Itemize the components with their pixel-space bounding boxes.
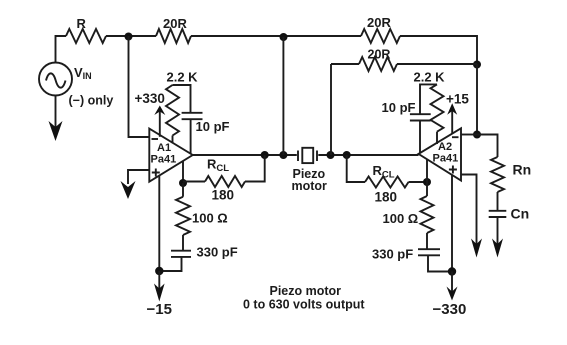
svg-text:100 Ω: 100 Ω — [192, 211, 228, 226]
svg-text:(−) only: (−) only — [69, 94, 114, 108]
svg-text:Rn: Rn — [513, 162, 532, 178]
wire cap to -330 junction — [428, 255, 452, 271]
capacitor 10pF comp A2 — [410, 114, 431, 120]
svg-text:0 to 630 volts output: 0 to 630 volts output — [243, 298, 365, 312]
wire feedback vertical A2 — [330, 64, 332, 155]
wire A1 output — [193, 154, 297, 156]
wire A1 body to RCL junction — [182, 161, 184, 183]
wire cap bottom to A2 tip — [419, 121, 421, 153]
svg-text:180: 180 — [212, 188, 235, 203]
node A2 inverting — [473, 131, 481, 139]
resistor R — [66, 29, 106, 43]
ground arrow A1 noninverting — [121, 181, 136, 199]
svg-text:100 Ω: 100 Ω — [383, 211, 419, 226]
op-amp A1 — [149, 129, 192, 182]
node A1 feedback top — [280, 33, 288, 41]
wire top right corner down — [400, 36, 477, 64]
supply arrow +15 — [451, 110, 453, 134]
wire A2 Vminus pin right and down — [461, 175, 477, 248]
wire Cn down — [497, 217, 499, 247]
svg-text:A1: A1 — [157, 142, 171, 154]
svg-text:2.2 K: 2.2 K — [414, 70, 446, 85]
supply arrow -15 — [158, 271, 160, 291]
resistor Rn — [491, 157, 504, 192]
wire A2 fb left corner — [331, 63, 359, 65]
wire RCL2 from piezo node down — [347, 155, 365, 182]
wire RCL2 to junction — [409, 181, 428, 183]
svg-text:Piezo motor: Piezo motor — [270, 284, 342, 298]
resistor 20R to A2 inverting — [361, 29, 400, 43]
minus sign A2 — [452, 136, 459, 138]
wire input node down to A1 inverting input — [129, 36, 150, 137]
resistor 100 ohm A1 — [176, 183, 190, 250]
wire to RCL1 — [183, 181, 205, 183]
plus sign A2 — [449, 166, 457, 174]
svg-text:20R: 20R — [367, 15, 391, 30]
plus sign A1 — [152, 169, 160, 177]
capacitor Cn — [489, 211, 507, 217]
wire 2.2K top over to cap — [173, 85, 191, 112]
svg-text:−15: −15 — [147, 301, 172, 318]
wire VIN bottom — [55, 96, 57, 129]
piezo motor body — [302, 148, 313, 163]
wire piezo to A2 output — [318, 154, 418, 156]
resistor 20R feedback A2 — [359, 57, 397, 71]
svg-text:20R: 20R — [368, 48, 391, 62]
supply arrow +330 — [159, 111, 161, 137]
resistor 2.2K comp A1 — [166, 85, 179, 136]
node RCL2 junction — [423, 178, 431, 186]
wire 2.2K bottom to A2 body — [436, 132, 438, 144]
svg-text:A2: A2 — [438, 141, 452, 153]
ground arrow Cn — [492, 239, 503, 258]
svg-text:+15: +15 — [446, 92, 469, 107]
wire 2.2K bottom to A1 body — [172, 136, 174, 144]
wire 20R2 to right rail — [397, 63, 477, 65]
svg-text:330 pF: 330 pF — [197, 245, 238, 260]
svg-text:motor: motor — [292, 179, 328, 193]
wire 20R1 to node A1out-top — [191, 35, 361, 37]
node 20R junction right — [473, 61, 481, 69]
wire A1 Vminus pin down — [158, 176, 160, 271]
svg-text:Pa41: Pa41 — [433, 153, 459, 165]
svg-text:Pa41: Pa41 — [151, 154, 177, 166]
piezo motor right plate — [316, 151, 318, 162]
capacitor 330pF A2 — [418, 249, 440, 255]
wire cap bottom to A1 tip — [190, 119, 192, 153]
node RCL1 output tie — [261, 151, 269, 159]
source VIN — [39, 63, 72, 96]
resistor RCL 180 A2 — [365, 177, 409, 188]
wire RCL1 up to output — [245, 155, 265, 182]
capacitor 10pF comp A1 — [182, 113, 203, 119]
wire VIN top — [56, 36, 67, 63]
svg-text:10 pF: 10 pF — [382, 100, 416, 115]
resistor RCL 180 A1 — [205, 176, 245, 187]
wire cap to -15 junction — [159, 257, 181, 271]
wire A1 noninverting input — [128, 170, 149, 184]
resistor 2.2K comp A2 — [431, 84, 444, 131]
svg-text:330 pF: 330 pF — [372, 247, 413, 262]
svg-text:Cn: Cn — [511, 206, 530, 222]
resistor 20R feedback A1 — [156, 29, 191, 43]
ground arrow VIN — [49, 121, 63, 141]
node input junction — [125, 33, 133, 41]
resistor 100 ohm A2 — [421, 182, 434, 249]
minus sign A1 — [152, 138, 159, 140]
svg-text:−330: −330 — [433, 301, 467, 318]
node RCL1 junction — [179, 179, 187, 187]
wire 2.2K top over to cap — [420, 84, 437, 113]
ground arrow A2 Vminus — [471, 239, 482, 258]
node RCL2 output tie — [343, 151, 351, 159]
wire A2 body to RCL junction — [426, 160, 428, 183]
op-amp A2 — [419, 128, 462, 180]
svg-text:20R: 20R — [163, 16, 187, 31]
wire feedback vertical A1 — [282, 37, 284, 155]
capacitor 330pF A1 — [171, 251, 191, 257]
supply arrow -330 — [451, 272, 453, 293]
wire Rn branch — [477, 135, 498, 158]
wire A2 inverting input to rail — [461, 134, 477, 136]
svg-text:180: 180 — [375, 190, 398, 205]
node A1 feedback tie — [279, 151, 287, 159]
svg-text:2.2 K: 2.2 K — [167, 70, 199, 85]
node -330 junction — [448, 267, 456, 275]
wire Rn to Cn — [497, 192, 499, 210]
svg-text:10 pF: 10 pF — [196, 119, 230, 134]
svg-text:+330: +330 — [135, 91, 165, 106]
svg-text:R: R — [77, 16, 87, 31]
wire A2 plus pin down — [451, 175, 453, 271]
node -15 junction — [155, 267, 163, 275]
node A2 feedback tie — [327, 151, 335, 159]
piezo motor left plate — [297, 151, 299, 162]
wire right rail down to A2 inverting input — [476, 64, 478, 135]
wire R to node — [106, 35, 156, 37]
